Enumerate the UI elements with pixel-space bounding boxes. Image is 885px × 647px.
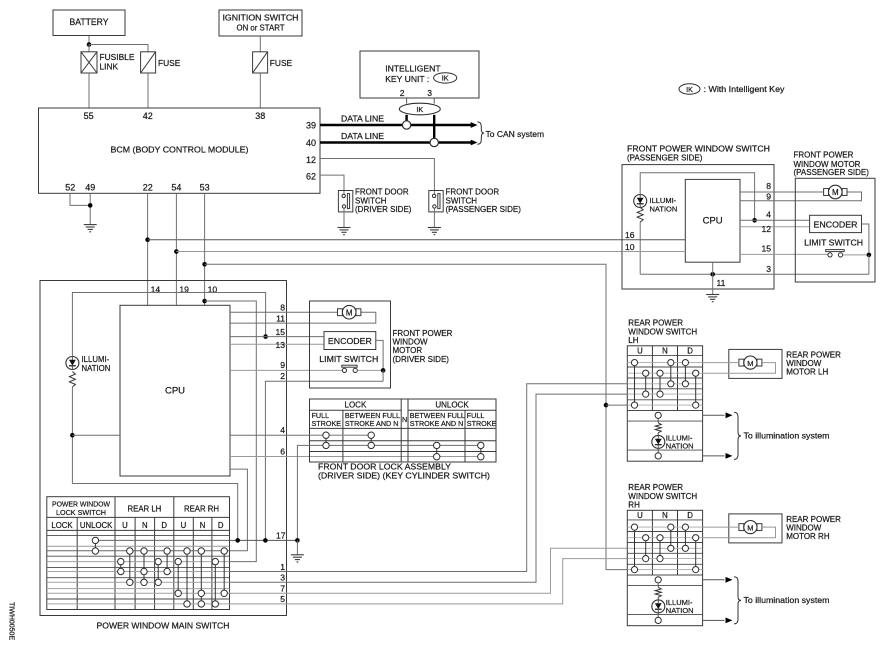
svg-text:ENCODER: ENCODER [328, 336, 372, 346]
wire pin 11 motor loop [230, 312, 376, 323]
wire 7 to rear RH [229, 548, 627, 593]
svg-text:FRONT POWER: FRONT POWER [794, 150, 854, 159]
svg-text:17: 17 [276, 531, 286, 541]
front power window motor (driver side) box [310, 301, 391, 388]
svg-text:NATION: NATION [82, 364, 111, 373]
svg-text:IGNITION SWITCH: IGNITION SWITCH [223, 14, 299, 23]
svg-text:FUSE: FUSE [270, 58, 293, 68]
node illumination/CPU left [70, 433, 75, 438]
svg-text:LINK: LINK [100, 62, 119, 72]
svg-text:LIMIT SWITCH: LIMIT SWITCH [319, 354, 378, 364]
svg-text:LOCK: LOCK [51, 521, 73, 530]
svg-text:LH: LH [628, 336, 638, 345]
svg-text:NATION: NATION [666, 606, 694, 615]
wire to ground [712, 289, 714, 294]
ground main [291, 554, 304, 556]
svg-text:RH: RH [628, 501, 640, 510]
svg-text:D: D [687, 347, 693, 356]
svg-text:N: N [142, 521, 148, 530]
node rear LH branch [604, 403, 609, 408]
svg-text:INTELLIGENT: INTELLIGENT [385, 64, 441, 74]
svg-text:14: 14 [151, 285, 161, 295]
svg-text:49: 49 [85, 183, 95, 193]
wire pin 15 to limit switch [740, 253, 828, 255]
svg-text:POWER WINDOW: POWER WINDOW [52, 499, 110, 508]
svg-text:19: 19 [179, 285, 189, 295]
svg-text:11: 11 [717, 278, 726, 288]
svg-text:U: U [637, 347, 643, 356]
front door switch (driver side) [338, 191, 352, 212]
svg-text:WINDOW SWITCH: WINDOW SWITCH [628, 328, 697, 337]
wire fuse F1 to BCM pin 42 [147, 73, 149, 108]
svg-text:To illumination system: To illumination system [744, 431, 830, 441]
wire encoder right [862, 224, 869, 255]
svg-text:U: U [637, 511, 643, 520]
svg-text:8: 8 [766, 181, 771, 191]
wire pin 2 [265, 381, 383, 540]
svg-text:POWER WINDOW MAIN SWITCH: POWER WINDOW MAIN SWITCH [97, 621, 230, 631]
node ground junction [295, 538, 300, 543]
wire CPU bottom [712, 262, 714, 289]
svg-text:(DRIVER SIDE) (KEY CYLINDER SW: (DRIVER SIDE) (KEY CYLINDER SWITCH) [318, 471, 490, 481]
svg-text:IK: IK [686, 85, 693, 94]
node 49/52 join [88, 203, 93, 208]
CPU U1 [120, 305, 230, 476]
node 22 branch [145, 237, 150, 242]
motor M rear RH [739, 524, 744, 531]
svg-text:54: 54 [171, 183, 181, 193]
node limit junction driver [381, 368, 386, 373]
svg-text:16: 16 [625, 230, 635, 240]
svg-text:22: 22 [143, 183, 153, 193]
svg-text:SWITCH: SWITCH [355, 196, 387, 205]
wire pin 4 [230, 434, 371, 436]
motor M rear LH [739, 359, 744, 366]
svg-text:ENCODER: ENCODER [814, 219, 858, 229]
node pin4 junction [752, 218, 757, 223]
svg-text:4: 4 [280, 425, 285, 435]
ground passenger switch [706, 294, 719, 296]
svg-text:KEY UNIT :: KEY UNIT : [385, 74, 429, 84]
svg-text:40: 40 [306, 138, 316, 148]
wire 5 to rear RH [229, 559, 627, 604]
illumination RH [655, 577, 661, 583]
wire BCM 62 to driver door switch [320, 175, 344, 196]
svg-text:13: 13 [275, 340, 285, 350]
wire fusible link to BCM pin 55 [88, 73, 90, 108]
svg-text:IK: IK [442, 74, 449, 83]
wire pin 8 to motor [740, 191, 824, 193]
svg-text:STROKE: STROKE [467, 419, 497, 428]
svg-text:N: N [662, 347, 668, 356]
svg-text:LOCK: LOCK [345, 401, 367, 410]
rear power window motor RH box [729, 514, 782, 543]
ignition switch box [219, 10, 302, 36]
BCM (body control module) [39, 108, 321, 193]
svg-text:9: 9 [766, 191, 771, 201]
node CPU ground junction [710, 272, 715, 277]
wire passenger door switch to ground [433, 208, 435, 227]
svg-text:(PASSENGER SIDE): (PASSENGER SIDE) [794, 168, 870, 177]
svg-text:BATTERY: BATTERY [70, 17, 109, 27]
wire BCM 22 to CPU pin 14 [147, 193, 149, 305]
svg-text:SWITCH: SWITCH [446, 196, 478, 205]
wire 1 to rear LH [229, 384, 627, 572]
wire battery down [88, 36, 90, 45]
node illum junction [235, 538, 240, 543]
wire ignition down [259, 36, 261, 52]
wire pin 8 [230, 311, 338, 313]
wire key cyl row2 to ground bus [297, 445, 480, 540]
svg-text:12: 12 [761, 224, 771, 234]
fusible link [88, 45, 90, 52]
encoder passenger [810, 215, 862, 232]
svg-text:8: 8 [280, 302, 285, 312]
svg-text:LIMIT SWITCH: LIMIT SWITCH [804, 238, 863, 248]
svg-text:(PASSENGER SIDE): (PASSENGER SIDE) [446, 205, 522, 214]
wire pin 9 [230, 369, 342, 371]
wire IK to line40 [433, 115, 435, 138]
svg-text:42: 42 [143, 111, 153, 121]
svg-text:MOTOR RH: MOTOR RH [786, 532, 830, 541]
svg-text:STROKE AND N: STROKE AND N [410, 419, 464, 428]
motor M passenger [824, 189, 829, 196]
svg-text:To CAN system: To CAN system [486, 129, 545, 139]
wire BCM 53 to CPU pin 10 [204, 193, 206, 305]
svg-text:CPU: CPU [165, 386, 185, 397]
wire junction down to pin3 bus [868, 255, 870, 274]
legend IK oval [679, 84, 700, 94]
node pin2 junction [263, 538, 268, 543]
svg-text:To illumination system: To illumination system [744, 595, 830, 605]
rear power window motor LH box [729, 349, 782, 378]
svg-text:15: 15 [761, 244, 771, 254]
svg-text:DATA LINE: DATA LINE [341, 114, 385, 123]
svg-text:62: 62 [306, 172, 316, 182]
contacts main switch table [94, 540, 96, 551]
svg-text:M: M [832, 188, 839, 197]
svg-text:1: 1 [280, 562, 285, 572]
node 53 branch [202, 262, 207, 267]
svg-text:D: D [161, 521, 167, 530]
wire key cyl row1 [310, 434, 372, 436]
svg-text:BCM (BODY CONTROL MODULE): BCM (BODY CONTROL MODULE) [111, 145, 249, 155]
svg-text:D: D [218, 521, 224, 530]
svg-text:(PASSENGER SIDE): (PASSENGER SIDE) [627, 154, 703, 163]
ground BCM 49/52 [84, 224, 97, 226]
intelligent key unit box [360, 51, 479, 98]
svg-text:3: 3 [280, 573, 285, 583]
svg-text:9: 9 [280, 360, 285, 370]
data line 40 [320, 141, 471, 144]
wire pin 12 to encoder [740, 226, 810, 228]
wire pin 16 [622, 239, 685, 241]
wire illumination to wire17 [72, 484, 237, 541]
wire pin 4 to encoder [740, 219, 810, 221]
front power window switch (passenger side) box [622, 165, 774, 289]
svg-text:REAR POWER: REAR POWER [628, 319, 683, 328]
wire limit right [843, 254, 869, 256]
svg-text:DATA LINE: DATA LINE [341, 132, 385, 141]
wire 17 ground bus [229, 539, 297, 541]
svg-text:N: N [662, 511, 668, 520]
svg-text:FUSE: FUSE [158, 58, 181, 68]
wire motor RH [703, 526, 739, 528]
svg-text:11: 11 [276, 313, 285, 323]
svg-text:52: 52 [65, 183, 75, 193]
wire branch to fuse [89, 45, 148, 52]
svg-text:M: M [346, 308, 353, 317]
contacts rear switch LH [634, 363, 636, 406]
node 54 branch [174, 249, 179, 254]
wire pin 6 [230, 456, 481, 458]
wire motor LH [703, 362, 739, 364]
svg-text:U: U [122, 521, 128, 530]
svg-text:2: 2 [280, 371, 285, 381]
svg-text:ILLUMI-: ILLUMI- [82, 355, 110, 364]
motor M driver [338, 309, 343, 316]
front door lock assembly table [310, 399, 497, 462]
resistor illumination main [69, 372, 75, 388]
svg-text:STROKE: STROKE [312, 419, 342, 428]
svg-text:10: 10 [208, 285, 218, 295]
illumination LED passenger [634, 195, 647, 208]
svg-text:NATION: NATION [650, 205, 678, 214]
svg-text:REAR POWER: REAR POWER [628, 483, 683, 492]
data line 39 [320, 124, 471, 127]
wire pin 3 / ground bus [640, 273, 869, 275]
svg-text:M: M [747, 359, 753, 368]
svg-text:M: M [747, 523, 753, 532]
wire to ground [296, 540, 298, 554]
wire BCM 52 [70, 193, 90, 205]
contacts rear switch RH [634, 527, 636, 570]
svg-text:CPU: CPU [703, 216, 723, 227]
power window main switch box [40, 281, 287, 616]
svg-text:7: 7 [280, 583, 285, 593]
wire branch to row b [205, 301, 257, 562]
wire encoder right [376, 340, 383, 370]
wire branch to rear LH [606, 404, 627, 406]
svg-text:FRONT DOOR: FRONT DOOR [355, 188, 409, 197]
wire pin 10 [622, 251, 685, 253]
wire pin 15 [230, 336, 324, 338]
svg-text:UNLOCK: UNLOCK [435, 401, 469, 410]
svg-text:4: 4 [766, 210, 771, 220]
svg-text:53: 53 [200, 183, 210, 193]
brace to CAN [477, 122, 484, 144]
svg-text:(DRIVER SIDE): (DRIVER SIDE) [393, 355, 450, 364]
svg-text:N: N [200, 521, 206, 530]
CPU U2 [685, 179, 740, 262]
svg-text:LOCK SWITCH: LOCK SWITCH [56, 508, 106, 517]
wire limit right [357, 369, 383, 371]
svg-text:15: 15 [275, 327, 285, 337]
svg-text:TIWH0050E: TIWH0050E [8, 602, 15, 640]
node battery junction [87, 42, 92, 47]
wire LH illumination arrows [703, 414, 725, 416]
wire 53 to rear switches [205, 264, 628, 569]
svg-text:2: 2 [400, 88, 405, 98]
node line39 connector [402, 121, 410, 129]
wire IK pin2 down [406, 98, 408, 104]
svg-text:REAR RH: REAR RH [184, 505, 219, 514]
wire IK to line39 [405, 115, 407, 121]
wire RH illumination arrows [703, 579, 725, 581]
svg-text:10: 10 [625, 242, 635, 252]
svg-text:FRONT DOOR: FRONT DOOR [446, 188, 500, 197]
svg-text:12: 12 [306, 155, 316, 165]
wire illumination down [639, 222, 641, 274]
ground passenger door switch [428, 227, 441, 229]
svg-text:REAR LH: REAR LH [128, 505, 162, 514]
svg-text:38: 38 [255, 111, 265, 121]
encoder driver [324, 332, 376, 350]
illumination LED main [66, 357, 79, 370]
wire fuse F2 to BCM pin 38 [259, 73, 261, 108]
fuse F1 [141, 52, 156, 73]
svg-text:NATION: NATION [666, 442, 694, 451]
wire pin 9 motor loop [740, 192, 862, 201]
wire 3 to rear LH [229, 394, 627, 582]
illumination LH [655, 412, 661, 418]
wire CPU to row a [229, 469, 247, 551]
wire illumination top loop to pin4 [640, 173, 754, 221]
wire BCM 12 to passenger door switch [320, 159, 434, 196]
svg-text:MOTOR LH: MOTOR LH [786, 368, 828, 377]
svg-text:6: 6 [280, 447, 285, 457]
rear power window switch LH table [627, 346, 702, 461]
wire driver door switch to ground [343, 208, 345, 227]
svg-text:5: 5 [280, 594, 285, 604]
svg-text:UNLOCK: UNLOCK [80, 521, 113, 530]
fuse F2 [253, 52, 268, 73]
svg-text:39: 39 [306, 121, 316, 131]
svg-text:STROKE AND N: STROKE AND N [345, 419, 399, 428]
contacts key cylinder [325, 438, 327, 442]
svg-text:: With Intelligent Key: : With Intelligent Key [704, 84, 786, 94]
wire junction down to pin2 [382, 370, 384, 381]
battery B1 [53, 10, 125, 36]
svg-text:3: 3 [766, 264, 771, 274]
power window lock switch table [47, 497, 230, 610]
svg-text:U: U [181, 521, 187, 530]
node limit junction [867, 253, 872, 258]
node line40 connector [430, 138, 438, 146]
wire pin 13 [230, 343, 324, 345]
svg-text:D: D [687, 511, 693, 520]
wire BCM 49 to ground [89, 193, 91, 224]
wire to CPU left [72, 434, 120, 436]
node CPU pin10 branch [202, 299, 207, 304]
rear power window switch RH table [627, 510, 702, 625]
ground driver door switch [338, 227, 351, 229]
front power window motor (passenger side) box [795, 178, 875, 282]
wire 22 to passenger switch pin 16 [148, 239, 622, 241]
resistor illumination passenger [637, 208, 643, 223]
svg-text:FRONT POWER WINDOW SWITCH: FRONT POWER WINDOW SWITCH [627, 144, 770, 153]
wire 54 to passenger switch pin 10 [176, 251, 622, 253]
node pin15 junction [263, 334, 268, 339]
svg-text:MOTOR: MOTOR [393, 346, 423, 355]
front door switch (passenger side) [429, 191, 443, 212]
svg-text:55: 55 [84, 111, 94, 121]
svg-text:(DRIVER SIDE): (DRIVER SIDE) [355, 205, 412, 214]
svg-text:FUSIBLE: FUSIBLE [100, 52, 135, 62]
IK connector oval [399, 103, 440, 115]
wire illumination top main [72, 293, 265, 357]
wire BCM 54 to CPU pin 19 [175, 193, 177, 305]
wire illumination down [71, 387, 73, 484]
svg-text:N: N [402, 415, 407, 424]
svg-text:ON or START: ON or START [237, 24, 285, 33]
svg-text:IK: IK [416, 105, 423, 114]
wire IK pin3 down [433, 98, 435, 104]
svg-text:3: 3 [427, 88, 432, 98]
